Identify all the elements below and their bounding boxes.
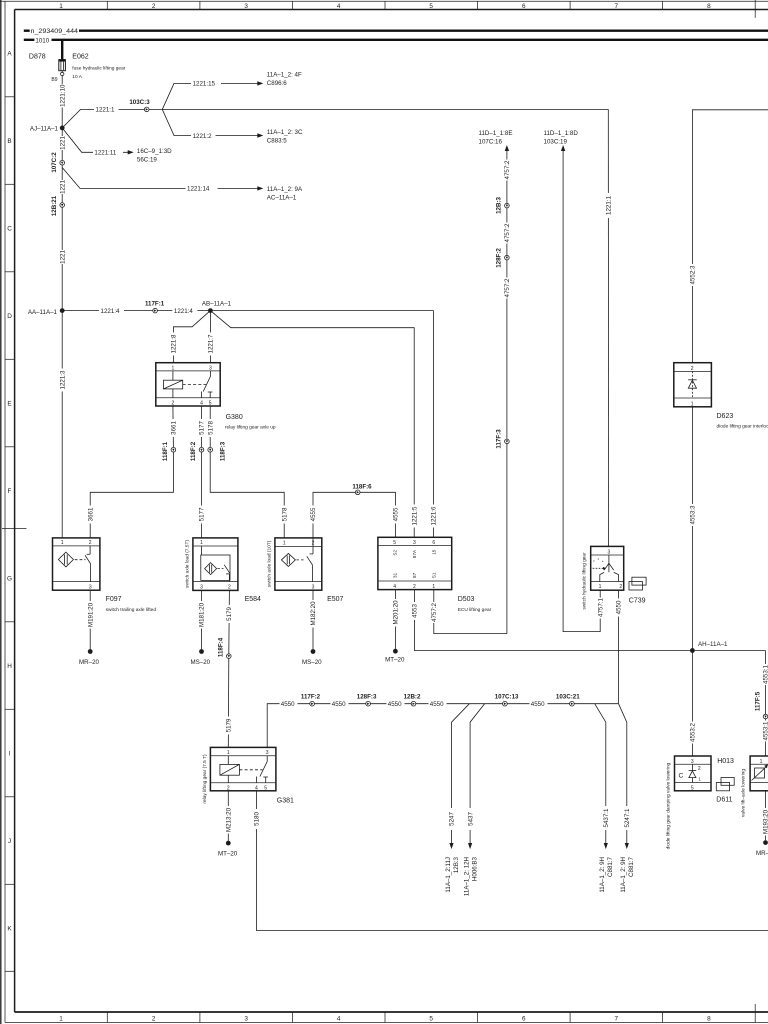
svg-text:4: 4 [393,584,396,590]
svg-text:3: 3 [244,1015,248,1022]
wire 1221:5 AB to D503 pin3 [210,311,414,538]
svg-text:87A: 87A [412,549,417,558]
svg-text:1: 1 [432,584,435,590]
svg-text:117F:3: 117F:3 [496,429,503,449]
svg-text:11A–1_2:11J: 11A–1_2:11J [445,857,452,893]
wire M182:20 to ground [312,590,314,649]
switch E584 [185,538,262,603]
svg-text:4550: 4550 [332,701,346,708]
wire 5437 branch arrow 11A-1_2:12H H006:B3 [463,704,484,896]
svg-text:2: 2 [172,401,175,407]
wire 5177 118F:2 to E584 pin1 [201,452,203,538]
wire label 4550 seg5 [530,700,548,708]
svg-text:n_293409_444: n_293409_444 [31,28,79,35]
node AA-11A-1 [28,308,65,316]
svg-text:1221:15: 1221:15 [193,81,216,88]
svg-text:4550: 4550 [388,701,402,708]
wire 4555 E507 pin2 to 118F:6 [313,492,355,546]
wire 4757:2 D503 pin1 to riser [434,590,507,634]
connector 117F:5 [755,691,768,718]
wire 5247 branch arrow 11A-1_2:11J 12B:3 [445,704,470,893]
svg-text:AC–11A–1: AC–11A–1 [267,194,297,201]
svg-text:1221:10: 1221:10 [59,84,66,107]
svg-text:4553:1: 4553:1 [763,664,768,683]
svg-text:4552:3: 4552:3 [690,265,697,284]
svg-text:5: 5 [429,1015,433,1022]
wire M201:20 D503 pin4 to ground [394,590,396,649]
svg-text:MR–20: MR–20 [79,659,100,666]
fuse E062 10 A [59,54,126,81]
svg-text:8: 8 [707,1015,711,1022]
wire M191:20 to ground [89,590,91,649]
wire label 1221:10 [59,84,67,108]
wire 1221:4 AA to AB [62,310,210,312]
svg-text:1221:8: 1221:8 [171,334,178,353]
svg-text:15: 15 [432,549,437,555]
svg-text:fuse hydraulic lifting gear: fuse hydraulic lifting gear [72,66,125,72]
wire 4553:2 node AH to H013 pin3 [691,651,693,757]
svg-text:I: I [9,750,11,757]
svg-text:5437: 5437 [467,812,474,826]
wire label M181:20 [198,601,206,629]
connector 12B:2 [404,693,421,706]
svg-text:5179: 5179 [226,718,233,732]
arrow up 11D-1_1:8D 103C:19 [544,130,579,151]
svg-text:1: 1 [283,541,286,547]
wire label 4553 [411,602,419,620]
svg-text:5177: 5177 [199,421,206,435]
wire label 4550 [615,599,623,617]
wire label 4553:1 upper [762,664,768,685]
ECU D503 [378,537,492,613]
svg-text:11A–1_2: 3C: 11A–1_2: 3C [267,129,303,136]
wire label M213:20 [225,806,233,834]
svg-text:107C:2: 107C:2 [51,152,58,173]
svg-text:M181:20: M181:20 [199,602,206,627]
top ruler numbers 1-8 [59,3,711,10]
arrow to 11A-1_2:4F C896:6 [257,72,302,87]
connector 107C:13 [495,693,519,706]
wire 1221:6 AB to D503 pin6 [210,311,433,538]
svg-text:1221:14: 1221:14 [187,186,210,193]
wire 4552:3 from top right to D623 pin2 [692,110,768,363]
wire label 4552:3 [689,264,697,286]
wire label 4550 seg3 [387,700,405,708]
wire label 1221:8 [170,333,178,356]
wire label 1221:4 right [172,307,197,315]
svg-text:5: 5 [264,786,267,792]
wire label 4553:2 [689,722,697,744]
wire label 4757:1 [597,597,605,618]
switch E507 [267,538,344,603]
wire 1221:8 from AB to G380 pin1 [173,311,210,363]
svg-text:M182:20: M182:20 [310,601,317,626]
connector icon D611 [716,778,734,804]
svg-text:118F:3: 118F:3 [220,441,227,461]
wire label 5177 lower [198,506,206,524]
svg-text:3: 3 [312,584,315,590]
svg-text:11A–1_2: 9H: 11A–1_2: 9H [599,857,606,893]
svg-text:4553:3: 4553:3 [690,505,697,524]
ground MS-20 left [190,649,210,666]
wire label 1221:1 [94,106,119,114]
wire 5179 E584 pin2 to 118F:4 [228,590,231,653]
svg-text:1221:1: 1221:1 [606,195,613,214]
svg-text:switch axle load (7.5T): switch axle load (7.5T) [185,540,191,588]
svg-text:1221:4: 1221:4 [101,308,120,315]
svg-text:2: 2 [152,1015,156,1022]
svg-text:3: 3 [89,584,92,590]
svg-text:5: 5 [691,785,694,791]
svg-text:11D–1_1:8D: 11D–1_1:8D [544,130,579,137]
wire label 1221 [59,250,67,264]
svg-text:1221:11: 1221:11 [94,150,116,157]
svg-text:1010: 1010 [35,37,49,44]
svg-text:1221:1: 1221:1 [96,107,115,114]
svg-text:3: 3 [413,540,416,546]
wire 4553:3 D623 pin1 to node AH [691,407,693,651]
wire label 1221:3 [59,369,67,392]
svg-text:12B:21: 12B:21 [51,195,58,216]
svg-text:11A–1_2: 9H: 11A–1_2: 9H [620,857,627,893]
bus 4550 row H [267,704,618,748]
svg-text:1221:4: 1221:4 [174,308,193,315]
ground MT-20 lower [218,841,238,858]
svg-text:5180: 5180 [254,812,261,826]
svg-text:118F:2: 118F:2 [190,441,197,461]
diode H013 [666,756,734,849]
svg-text:3: 3 [244,3,248,10]
wire 1221:15 branch [162,83,257,109]
wire label M201:20 [392,599,400,627]
wire 1221:1 to 103C:3 [62,109,608,128]
wire M213:20 G381 pin2 to ground [227,791,229,841]
svg-text:switch trailing axle lifted: switch trailing axle lifted [106,607,157,613]
svg-text:4: 4 [255,786,258,792]
wire 4550 C739 pin2 down to bus [618,590,620,704]
wire label 5177 [198,419,206,437]
svg-text:1221:5: 1221:5 [411,506,418,525]
svg-text:5437:1: 5437:1 [603,808,610,827]
svg-text:1: 1 [760,759,763,765]
svg-text:MR–20: MR–20 [756,850,768,857]
wire label 5178 [207,419,215,437]
wire label 1221:11 [93,149,123,157]
svg-text:16C–9_1:3D: 16C–9_1:3D [137,148,172,155]
svg-text:4: 4 [337,1015,341,1022]
svg-text:11A–1_2: 9A: 11A–1_2: 9A [267,186,303,193]
ground MS-20 right [302,649,322,666]
wire label 3661 [170,419,178,437]
riser to arrow 103C:19 from C739 pin1 [563,151,600,632]
svg-text:3: 3 [608,549,611,555]
wire label 4757:2 mid2 [504,278,512,299]
svg-text:4: 4 [337,3,341,10]
svg-text:AA–11A–1: AA–11A–1 [28,309,58,316]
bus bar n_293409_444 [24,28,768,35]
svg-text:3: 3 [266,750,269,756]
wire label 4555 right [392,506,400,524]
connector 128F:3 [357,693,377,706]
arrow to 16C-9_1:3D 56C:19 [128,148,172,163]
wire 4553 D503 pin2 to node AH [414,590,765,651]
svg-text:S1: S1 [432,572,437,578]
svg-text:12B:2: 12B:2 [404,693,421,700]
svg-text:1: 1 [227,750,230,756]
svg-text:128F:2: 128F:2 [496,248,503,268]
svg-text:6: 6 [432,540,435,546]
svg-text:F: F [8,488,12,495]
svg-text:4550: 4550 [430,701,444,708]
svg-text:D623: D623 [717,413,734,420]
svg-text:MT–20: MT–20 [218,851,238,858]
svg-text:8: 8 [707,3,711,10]
svg-text:2: 2 [227,786,230,792]
connector 107C:2 [51,152,65,173]
connector 118F:2 [190,441,204,461]
svg-text:B9: B9 [51,77,57,83]
wire 5177 G380 pin4 to 118F:2 [201,406,203,447]
svg-text:AB–11A–1: AB–11A–1 [202,300,232,307]
svg-text:11A–1_2: 4F: 11A–1_2: 4F [267,72,302,79]
svg-text:12B:3: 12B:3 [496,197,503,214]
arrow up 11D-1_1:8E 107C:16 [479,130,513,151]
node AJ-11A-1 [30,125,65,132]
svg-text:1221: 1221 [59,136,66,150]
connector 103C:3 [129,99,150,112]
svg-text:E584: E584 [245,596,261,603]
wire 4555 118F:6 to D503 pin5 [360,492,395,537]
arrow to 11A-1_2:3C C883:5 [257,129,303,144]
svg-text:4757:2: 4757:2 [431,602,438,621]
svg-text:B: B [7,138,11,145]
svg-text:F097: F097 [106,596,122,603]
svg-text:D: D [7,313,12,320]
ground MR-20 [79,649,100,666]
svg-text:128F:3: 128F:3 [357,693,377,700]
svg-text:2: 2 [89,540,92,546]
connector 118F:6 [352,484,372,495]
wire 5179 118F:4 to G381 pin1 [227,658,230,747]
svg-text:4757:2: 4757:2 [504,278,511,297]
connector 118F:4 [217,637,231,658]
bottom ruler ticks [107,1004,755,1023]
svg-text:6: 6 [522,3,526,10]
svg-text:5179: 5179 [226,607,233,621]
wire label 4553:1 lower [762,721,768,742]
fuse pin B9 [51,71,64,83]
svg-text:M201:20: M201:20 [393,600,400,625]
svg-text:MT–20: MT–20 [385,657,405,664]
svg-text:D503: D503 [458,596,475,603]
svg-text:1: 1 [599,584,602,590]
wire label 4550 seg4 [429,700,447,708]
wire label 3661 lower [87,506,95,524]
wire label 1221:15 [191,80,221,88]
page edge line [0,0,2,1024]
wire label 4757:2 top [504,160,512,181]
svg-text:E: E [7,400,11,407]
svg-text:4: 4 [200,401,203,407]
wire 3661 118F:1 to F097 pin2 [90,452,173,538]
svg-text:K: K [7,925,12,932]
switch F097 [53,538,157,613]
svg-text:103C:3: 103C:3 [129,99,150,106]
wire 1221:11 branch [62,128,128,152]
svg-text:J: J [8,838,11,845]
svg-text:S2: S2 [392,550,397,556]
riser 4757:2 with connectors up to arrow 107C:16 [506,151,508,634]
svg-text:31: 31 [392,572,397,578]
svg-text:C881:7: C881:7 [607,856,614,877]
connector 103C:21 [556,693,580,706]
svg-text:117F:5: 117F:5 [755,691,762,711]
wire M193:20 valve to ground [765,791,767,841]
svg-text:117F:1: 117F:1 [145,300,165,307]
svg-text:11A–1_2: 12H: 11A–1_2: 12H [463,857,470,896]
svg-text:117F:2: 117F:2 [301,693,321,700]
ground MR-20 right [756,840,768,857]
svg-text:H: H [7,663,12,670]
wire label 4550 seg2 [331,700,349,708]
svg-text:D611: D611 [716,797,732,804]
wire label 4553:3 [689,504,697,526]
svg-text:E062: E062 [72,54,88,61]
svg-text:2: 2 [228,584,231,590]
top ruler ticks [107,0,755,18]
svg-text:5: 5 [429,3,433,10]
svg-text:A: A [7,50,12,57]
svg-text:4757:2: 4757:2 [504,223,511,242]
node AB-11A-1 [202,300,232,313]
svg-text:5177: 5177 [199,507,206,521]
svg-text:G380: G380 [226,414,243,421]
connector icon C739 [629,577,646,590]
svg-text:switch hydraulic lifting gear: switch hydraulic lifting gear [581,552,587,610]
svg-text:11D–1_1:8E: 11D–1_1:8E [479,130,513,137]
svg-text:103C:19: 103C:19 [544,139,568,146]
wire 1221:14 branch [62,168,257,189]
svg-text:6: 6 [522,1015,526,1022]
left ruler ticks [2,97,27,972]
svg-text:2: 2 [691,366,694,372]
svg-text:H006:B3: H006:B3 [471,856,478,881]
svg-text:relay lifting gear (7.5 T): relay lifting gear (7.5 T) [202,754,208,804]
svg-text:switch axle load (10T): switch axle load (10T) [267,540,273,587]
arrow to 11A-1_2:9A AC-11A-1 [257,186,303,201]
svg-text:1221:7: 1221:7 [208,334,215,353]
wire M181:20 to ground [201,590,203,649]
svg-text:87: 87 [412,572,417,578]
diode D623 [674,363,768,430]
svg-text:4555: 4555 [393,507,400,521]
svg-text:3: 3 [200,584,203,590]
wire label 4550 seg1 [280,700,298,708]
wire 5180 G381 pin4 to row K [256,791,768,931]
wire label 1221 [59,136,67,150]
wire 1221:7 from AB to G380 pin3 [209,311,211,363]
connector 118F:1 [162,441,176,461]
wire label 1221:6 [430,505,438,528]
svg-text:1221:6: 1221:6 [431,506,438,525]
wire label M193:20 [762,808,768,836]
wire 1221 between 107C:2 and 12B:21 [61,165,63,203]
svg-text:3661: 3661 [171,421,178,435]
wire 5437:1 branch arrow 11A-1_2:9H C881:7 [595,704,614,893]
svg-text:4550: 4550 [531,701,545,708]
svg-text:AH–11A–1: AH–11A–1 [698,641,728,648]
svg-text:5178: 5178 [207,421,214,435]
svg-text:G: G [7,575,12,582]
wire label 5179 lower [225,717,233,735]
svg-text:1: 1 [59,1015,63,1022]
svg-text:ECU lifting gear: ECU lifting gear [458,607,492,613]
svg-text:5: 5 [393,540,396,546]
svg-text:5247:1: 5247:1 [624,808,631,827]
wire label 1221:1 riser [605,193,613,218]
svg-text:12B:3: 12B:3 [453,856,460,873]
wire label 1221:7 [207,333,215,356]
svg-text:2: 2 [619,584,622,590]
wire label 5179 [225,605,233,623]
svg-text:118F:6: 118F:6 [352,484,372,491]
svg-text:C: C [679,772,684,779]
wire label 5180 [253,809,261,829]
valve lift-axle lowering [740,756,768,817]
svg-text:118F:1: 118F:1 [162,441,169,461]
svg-text:M193:20: M193:20 [763,809,768,834]
svg-text:C739: C739 [629,597,646,604]
svg-text:107C:13: 107C:13 [495,693,519,700]
svg-text:AJ–11A–1: AJ–11A–1 [30,125,59,132]
svg-text:C896:6: C896:6 [267,80,288,87]
wire label 4757:2 mid1 [504,223,512,244]
svg-text:2: 2 [413,584,416,590]
connector 12B:21 [51,195,65,216]
svg-text:7: 7 [615,1015,619,1022]
wire 1221 below node AJ [61,128,63,160]
svg-text:1: 1 [59,3,63,10]
wire 1221:1 riser to C739 pin3 [607,109,609,546]
svg-text:C: C [7,225,12,232]
wire label 1221:5 [411,505,419,528]
connector 117F:1 [145,300,165,313]
wire label 4555 [310,506,318,524]
wire label 4757:2 [430,602,438,623]
svg-text:4550: 4550 [281,701,295,708]
svg-text:H013: H013 [717,758,734,765]
bottom ruler numbers 1-8 [59,1015,711,1022]
svg-text:10 A: 10 A [72,74,82,80]
svg-text:2: 2 [152,3,156,10]
svg-text:4553: 4553 [412,604,419,618]
wire label 1221:4 left [99,307,124,315]
svg-text:5247: 5247 [449,812,456,826]
svg-text:1: 1 [61,540,64,546]
connector 128F:2 [496,248,510,268]
wire 1221:2 branch [162,109,257,135]
svg-text:5178: 5178 [281,507,288,521]
svg-text:4757:1: 4757:1 [597,597,604,616]
wire 1221:3 AA to F097 pin1 [61,311,63,538]
svg-text:4553:2: 4553:2 [690,722,697,741]
svg-text:7: 7 [615,3,619,10]
svg-text:diode lifting gear damping val: diode lifting gear damping valve lowerin… [666,762,672,849]
ground MT-20 [385,649,405,664]
svg-text:MS–20: MS–20 [302,659,322,666]
wire 3661 G380 pin2 to 118F:1 [172,406,175,447]
svg-text:3661: 3661 [87,507,94,521]
